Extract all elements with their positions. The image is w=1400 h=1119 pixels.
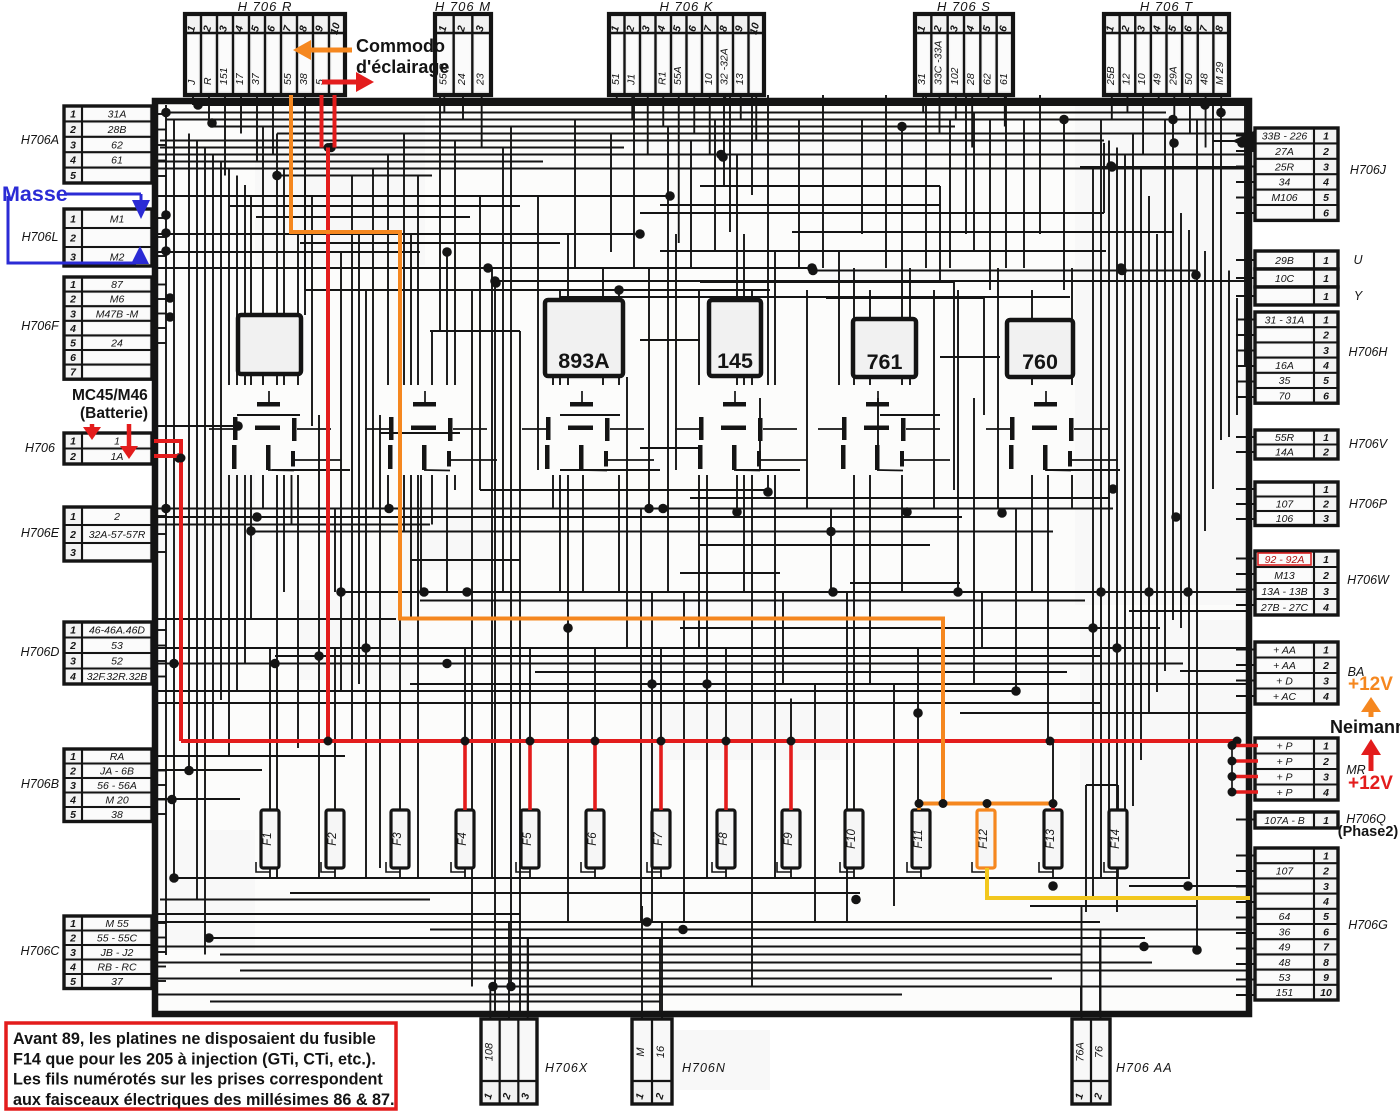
svg-text:F2: F2: [327, 832, 339, 846]
svg-text:1: 1: [1323, 815, 1329, 827]
svg-text:62: 62: [982, 73, 994, 85]
svg-text:76A: 76A: [1075, 1042, 1087, 1062]
svg-text:32A-57-57R: 32A-57-57R: [89, 529, 146, 541]
svg-text:RA: RA: [110, 751, 125, 763]
svg-text:J: J: [186, 79, 198, 86]
svg-text:13: 13: [734, 73, 746, 85]
svg-text:56 - 56A: 56 - 56A: [97, 780, 137, 792]
svg-text:1: 1: [1323, 255, 1329, 267]
svg-text:27B - 27C: 27B - 27C: [1260, 602, 1309, 614]
svg-text:49: 49: [1279, 942, 1291, 954]
svg-text:23: 23: [475, 73, 487, 86]
svg-text:25B: 25B: [1105, 66, 1117, 86]
svg-text:4: 4: [69, 795, 76, 807]
svg-text:1: 1: [1323, 484, 1329, 496]
svg-text:16A: 16A: [1275, 360, 1294, 372]
svg-text:1: 1: [1323, 850, 1329, 862]
svg-text:+ AA: + AA: [1273, 660, 1296, 672]
svg-text:M13: M13: [1274, 570, 1295, 582]
svg-text:2: 2: [69, 451, 76, 463]
svg-text:2: 2: [1322, 756, 1329, 768]
svg-text:61: 61: [998, 73, 1010, 85]
svg-text:29A: 29A: [1167, 66, 1179, 86]
svg-text:33B - 226: 33B - 226: [1262, 131, 1308, 143]
svg-text:55: 55: [282, 73, 294, 85]
svg-text:F3: F3: [392, 832, 404, 846]
svg-text:14A: 14A: [1275, 447, 1294, 459]
svg-text:2: 2: [69, 933, 76, 945]
svg-text:H706H: H706H: [1349, 345, 1389, 359]
svg-text:32F.32R.32B: 32F.32R.32B: [87, 671, 148, 683]
svg-text:F1: F1: [262, 832, 274, 845]
svg-text:893A: 893A: [558, 349, 609, 373]
svg-text:H 706 K: H 706 K: [660, 0, 714, 14]
svg-text:4: 4: [1322, 691, 1329, 703]
svg-text:F4: F4: [457, 832, 469, 845]
svg-text:1: 1: [1323, 645, 1329, 657]
svg-text:107: 107: [1276, 499, 1295, 511]
svg-text:F6: F6: [587, 832, 599, 846]
svg-text:34: 34: [1279, 177, 1291, 189]
svg-text:1: 1: [70, 918, 76, 930]
svg-text:H706P: H706P: [1349, 497, 1388, 511]
svg-text:F5: F5: [522, 832, 534, 846]
svg-text:+ P: + P: [1276, 772, 1292, 784]
svg-text:38: 38: [111, 809, 123, 821]
svg-text:28: 28: [965, 73, 977, 86]
svg-text:10: 10: [703, 73, 715, 85]
svg-text:H 706 R: H 706 R: [238, 0, 293, 14]
svg-text:+ P: + P: [1276, 756, 1292, 768]
svg-text:36: 36: [1279, 926, 1291, 938]
svg-text:3: 3: [1323, 881, 1329, 893]
svg-text:2: 2: [69, 124, 76, 136]
svg-text:4: 4: [1322, 360, 1329, 372]
svg-text:5: 5: [1323, 911, 1329, 923]
svg-text:9: 9: [1323, 972, 1329, 984]
svg-text:25R: 25R: [1274, 161, 1295, 173]
svg-text:1: 1: [70, 625, 76, 637]
svg-text:H706A: H706A: [21, 133, 59, 147]
svg-text:10C: 10C: [1275, 273, 1295, 285]
svg-text:3: 3: [70, 947, 76, 959]
svg-text:3: 3: [70, 547, 76, 559]
svg-text:151: 151: [218, 67, 230, 85]
svg-text:145: 145: [717, 349, 753, 373]
svg-text:F14 que pour les 205 à injecti: F14 que pour les 205 à injection (GTi, C…: [13, 1050, 376, 1068]
svg-text:Masse: Masse: [2, 182, 68, 206]
svg-text:JB - J2: JB - J2: [100, 947, 134, 959]
svg-text:F7: F7: [653, 832, 665, 846]
svg-text:2: 2: [1322, 499, 1329, 511]
svg-text:6: 6: [1323, 390, 1329, 402]
svg-text:1: 1: [1323, 432, 1329, 444]
svg-text:6: 6: [1323, 208, 1329, 220]
svg-text:29B: 29B: [1274, 255, 1294, 267]
svg-text:24: 24: [456, 73, 468, 86]
svg-text:F11: F11: [913, 830, 925, 849]
svg-text:5: 5: [70, 338, 76, 350]
svg-text:31 - 31A: 31 - 31A: [1265, 314, 1305, 326]
svg-text:5: 5: [1323, 375, 1329, 387]
svg-text:4: 4: [1322, 602, 1329, 614]
svg-text:3: 3: [70, 308, 76, 320]
svg-text:4: 4: [1322, 177, 1329, 189]
svg-text:151: 151: [1276, 987, 1294, 999]
svg-text:Les fils numérotés sur les pri: Les fils numérotés sur les prises corres…: [13, 1071, 383, 1089]
svg-text:F8: F8: [718, 832, 730, 846]
svg-text:3: 3: [1323, 676, 1329, 688]
svg-text:2: 2: [69, 766, 76, 778]
svg-text:1: 1: [1323, 273, 1329, 285]
svg-text:2: 2: [1322, 447, 1329, 459]
svg-text:H706D: H706D: [21, 645, 60, 659]
svg-text:2: 2: [1322, 146, 1329, 158]
svg-text:5: 5: [70, 809, 76, 821]
svg-text:2: 2: [69, 294, 76, 306]
svg-text:4: 4: [69, 671, 76, 683]
svg-text:1: 1: [70, 511, 76, 523]
svg-text:87: 87: [111, 279, 124, 291]
svg-text:M106: M106: [1271, 192, 1297, 204]
svg-text:(Phase2): (Phase2): [1338, 824, 1399, 840]
svg-text:RB - RC: RB - RC: [97, 962, 137, 974]
svg-text:aux faisceaux électriques des: aux faisceaux électriques des millésimes…: [13, 1091, 395, 1109]
svg-text:H 706 T: H 706 T: [1140, 0, 1193, 14]
svg-text:M1: M1: [110, 213, 125, 225]
svg-text:1: 1: [70, 109, 76, 121]
svg-text:4: 4: [69, 962, 76, 974]
svg-text:F10: F10: [846, 828, 858, 848]
svg-text:1: 1: [1323, 131, 1329, 143]
svg-text:(Batterie): (Batterie): [80, 405, 148, 422]
svg-text:2: 2: [69, 640, 76, 652]
svg-text:1A: 1A: [111, 451, 124, 463]
svg-text:107: 107: [1276, 866, 1295, 878]
svg-text:1: 1: [70, 436, 76, 448]
svg-text:53: 53: [1279, 972, 1291, 984]
svg-text:37: 37: [111, 976, 124, 988]
svg-text:H706G: H706G: [1348, 918, 1388, 932]
svg-text:92 - 92A: 92 - 92A: [1265, 554, 1305, 566]
svg-text:+ AA: + AA: [1273, 645, 1296, 657]
svg-text:10: 10: [1136, 73, 1148, 85]
svg-text:2: 2: [113, 511, 120, 523]
svg-text:2: 2: [1322, 660, 1329, 672]
svg-text:1: 1: [70, 213, 76, 225]
svg-text:55R: 55R: [1275, 432, 1295, 444]
svg-text:H706F: H706F: [21, 319, 60, 333]
svg-text:H706C: H706C: [21, 944, 61, 958]
svg-text:70: 70: [1279, 390, 1291, 402]
svg-text:3: 3: [70, 656, 76, 668]
svg-text:H706N: H706N: [682, 1061, 726, 1075]
svg-text:3: 3: [70, 139, 76, 151]
svg-text:16: 16: [655, 1045, 667, 1058]
svg-text:R: R: [202, 77, 214, 85]
svg-text:52: 52: [111, 656, 123, 668]
svg-text:28B: 28B: [107, 124, 127, 136]
svg-text:3: 3: [1323, 586, 1329, 598]
svg-text:1: 1: [70, 751, 76, 763]
svg-text:108: 108: [483, 1042, 495, 1061]
svg-text:760: 760: [1022, 350, 1058, 374]
svg-text:5: 5: [70, 170, 76, 182]
svg-text:H706J: H706J: [1350, 163, 1387, 177]
svg-text:32 -32A: 32 -32A: [718, 48, 730, 85]
svg-text:+12V: +12V: [1348, 674, 1393, 695]
svg-text:64: 64: [1279, 911, 1291, 923]
svg-text:H706B: H706B: [21, 777, 59, 791]
svg-text:+12V: +12V: [1348, 773, 1393, 794]
svg-text:37: 37: [250, 72, 262, 85]
svg-text:3: 3: [70, 780, 76, 792]
svg-text:5: 5: [1323, 192, 1329, 204]
svg-text:M 29: M 29: [1214, 61, 1226, 85]
svg-text:1: 1: [1323, 554, 1329, 566]
svg-text:U: U: [1353, 253, 1363, 267]
svg-text:H706E: H706E: [21, 526, 60, 540]
svg-text:JA - 6B: JA - 6B: [99, 766, 134, 778]
svg-text:761: 761: [867, 350, 903, 374]
svg-text:62: 62: [111, 139, 123, 151]
svg-text:H706 AA: H706 AA: [1116, 1061, 1173, 1075]
svg-text:Avant 89, les platines ne disp: Avant 89, les platines ne disposaient du…: [13, 1030, 376, 1048]
svg-text:H706V: H706V: [1349, 437, 1389, 451]
svg-text:49: 49: [1152, 73, 1164, 85]
svg-text:F14: F14: [1110, 829, 1122, 849]
svg-text:+ P: + P: [1276, 741, 1292, 753]
svg-text:76: 76: [1094, 1045, 1106, 1058]
svg-text:4: 4: [69, 155, 76, 167]
svg-text:31A: 31A: [108, 109, 127, 121]
svg-text:55A: 55A: [672, 66, 684, 85]
svg-text:H706W: H706W: [1347, 573, 1390, 587]
svg-text:H706: H706: [25, 441, 55, 455]
svg-text:8: 8: [1323, 957, 1329, 969]
svg-text:1: 1: [70, 279, 76, 291]
svg-text:55 - 55C: 55 - 55C: [97, 933, 138, 945]
svg-text:H 706 S: H 706 S: [937, 0, 991, 14]
svg-text:M: M: [635, 1047, 647, 1057]
svg-text:M 20: M 20: [105, 795, 129, 807]
svg-text:Commodo: Commodo: [356, 36, 445, 56]
svg-text:38: 38: [298, 73, 310, 85]
svg-text:H706X: H706X: [545, 1061, 588, 1075]
svg-text:12: 12: [1120, 73, 1132, 85]
svg-text:3: 3: [1323, 513, 1329, 525]
svg-text:+ P: + P: [1276, 787, 1292, 799]
svg-text:2: 2: [1322, 866, 1329, 878]
svg-text:53: 53: [111, 640, 123, 652]
svg-text:H 706 M: H 706 M: [435, 0, 491, 14]
svg-text:102: 102: [949, 67, 961, 85]
svg-text:M6: M6: [110, 294, 125, 306]
svg-text:61: 61: [111, 155, 123, 167]
svg-text:R1: R1: [656, 72, 668, 85]
svg-text:2: 2: [1322, 330, 1329, 342]
svg-text:4: 4: [1322, 787, 1329, 799]
svg-text:46-46A.46D: 46-46A.46D: [89, 625, 145, 637]
svg-text:4: 4: [1322, 896, 1329, 908]
svg-text:48: 48: [1279, 957, 1291, 969]
svg-text:3: 3: [1323, 161, 1329, 173]
svg-text:2: 2: [1322, 570, 1329, 582]
svg-text:3: 3: [1323, 345, 1329, 357]
svg-text:2: 2: [69, 529, 76, 541]
svg-text:107A - B: 107A - B: [1264, 815, 1304, 827]
svg-text:M 55: M 55: [105, 918, 129, 930]
svg-text:3: 3: [1323, 772, 1329, 784]
svg-text:51: 51: [610, 73, 622, 85]
svg-text:1: 1: [1323, 741, 1329, 753]
svg-text:+ AC: + AC: [1273, 691, 1297, 703]
svg-text:1: 1: [114, 436, 120, 448]
svg-text:F13: F13: [1045, 828, 1057, 848]
svg-text:J1: J1: [625, 74, 637, 86]
svg-text:4: 4: [69, 323, 76, 335]
svg-text:6: 6: [70, 352, 76, 364]
svg-text:31: 31: [916, 73, 928, 85]
svg-text:27A: 27A: [1274, 146, 1294, 158]
svg-text:F9: F9: [783, 832, 795, 846]
svg-text:35: 35: [1279, 375, 1291, 387]
svg-text:H706L: H706L: [22, 230, 59, 244]
svg-text:106: 106: [1276, 513, 1294, 525]
svg-text:1: 1: [1323, 291, 1329, 303]
svg-text:13A - 13B: 13A - 13B: [1261, 586, 1307, 598]
svg-text:17: 17: [234, 72, 246, 85]
svg-text:24: 24: [110, 338, 123, 350]
svg-text:50: 50: [1183, 73, 1195, 85]
svg-text:1: 1: [1323, 314, 1329, 326]
svg-text:33C -33A: 33C -33A: [933, 41, 945, 85]
svg-text:2: 2: [69, 232, 76, 244]
svg-text:+ D: + D: [1276, 676, 1293, 688]
svg-text:MC45/M46: MC45/M46: [72, 387, 148, 404]
svg-text:Neimann: Neimann: [1330, 717, 1400, 737]
svg-text:d'éclairage: d'éclairage: [356, 57, 449, 77]
svg-text:F12: F12: [978, 828, 990, 848]
svg-text:48: 48: [1199, 73, 1211, 85]
svg-text:5: 5: [70, 976, 76, 988]
svg-text:6: 6: [1323, 926, 1329, 938]
svg-text:10: 10: [1320, 987, 1332, 999]
svg-text:M47B -M: M47B -M: [96, 308, 139, 320]
